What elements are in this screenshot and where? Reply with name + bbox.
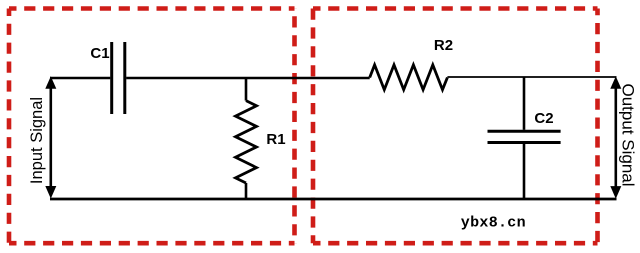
stage 2 dashed box (right) [313,9,598,244]
capacitor C2 bottom lead [523,144,526,199]
output arrowhead down [610,186,621,199]
wire: top, R2 to output arrow [447,76,616,78]
svg-text:ybx8.cn: ybx8.cn [461,215,526,232]
resistor R2 [370,65,448,90]
svg-text:C2: C2 [534,110,553,127]
capacitor C2 top lead [523,77,526,130]
wire: bottom rail [50,198,617,201]
input arrowhead down [45,186,56,199]
svg-text:R2: R2 [434,37,453,54]
resistor R1 top lead [245,78,248,101]
resistor R1 bottom lead [245,183,248,199]
output signal arrow shaft [614,86,617,189]
output arrowhead up [610,76,621,89]
svg-text:Input Signal: Input Signal [28,97,46,184]
input arrowhead up [45,76,56,89]
stage 1 dashed box (left) [9,9,295,244]
input signal arrow shaft [49,86,52,189]
svg-text:R1: R1 [266,131,285,148]
capacitor C2 [488,131,561,142]
capacitor C1 [112,42,125,114]
resistor R1 [236,101,257,183]
wire: top, input arrow to C1 left plate [50,77,110,80]
svg-text:Output Signal: Output Signal [619,83,638,186]
svg-text:C1: C1 [90,45,109,62]
wire: top, C1 right plate to R2 [126,77,370,80]
